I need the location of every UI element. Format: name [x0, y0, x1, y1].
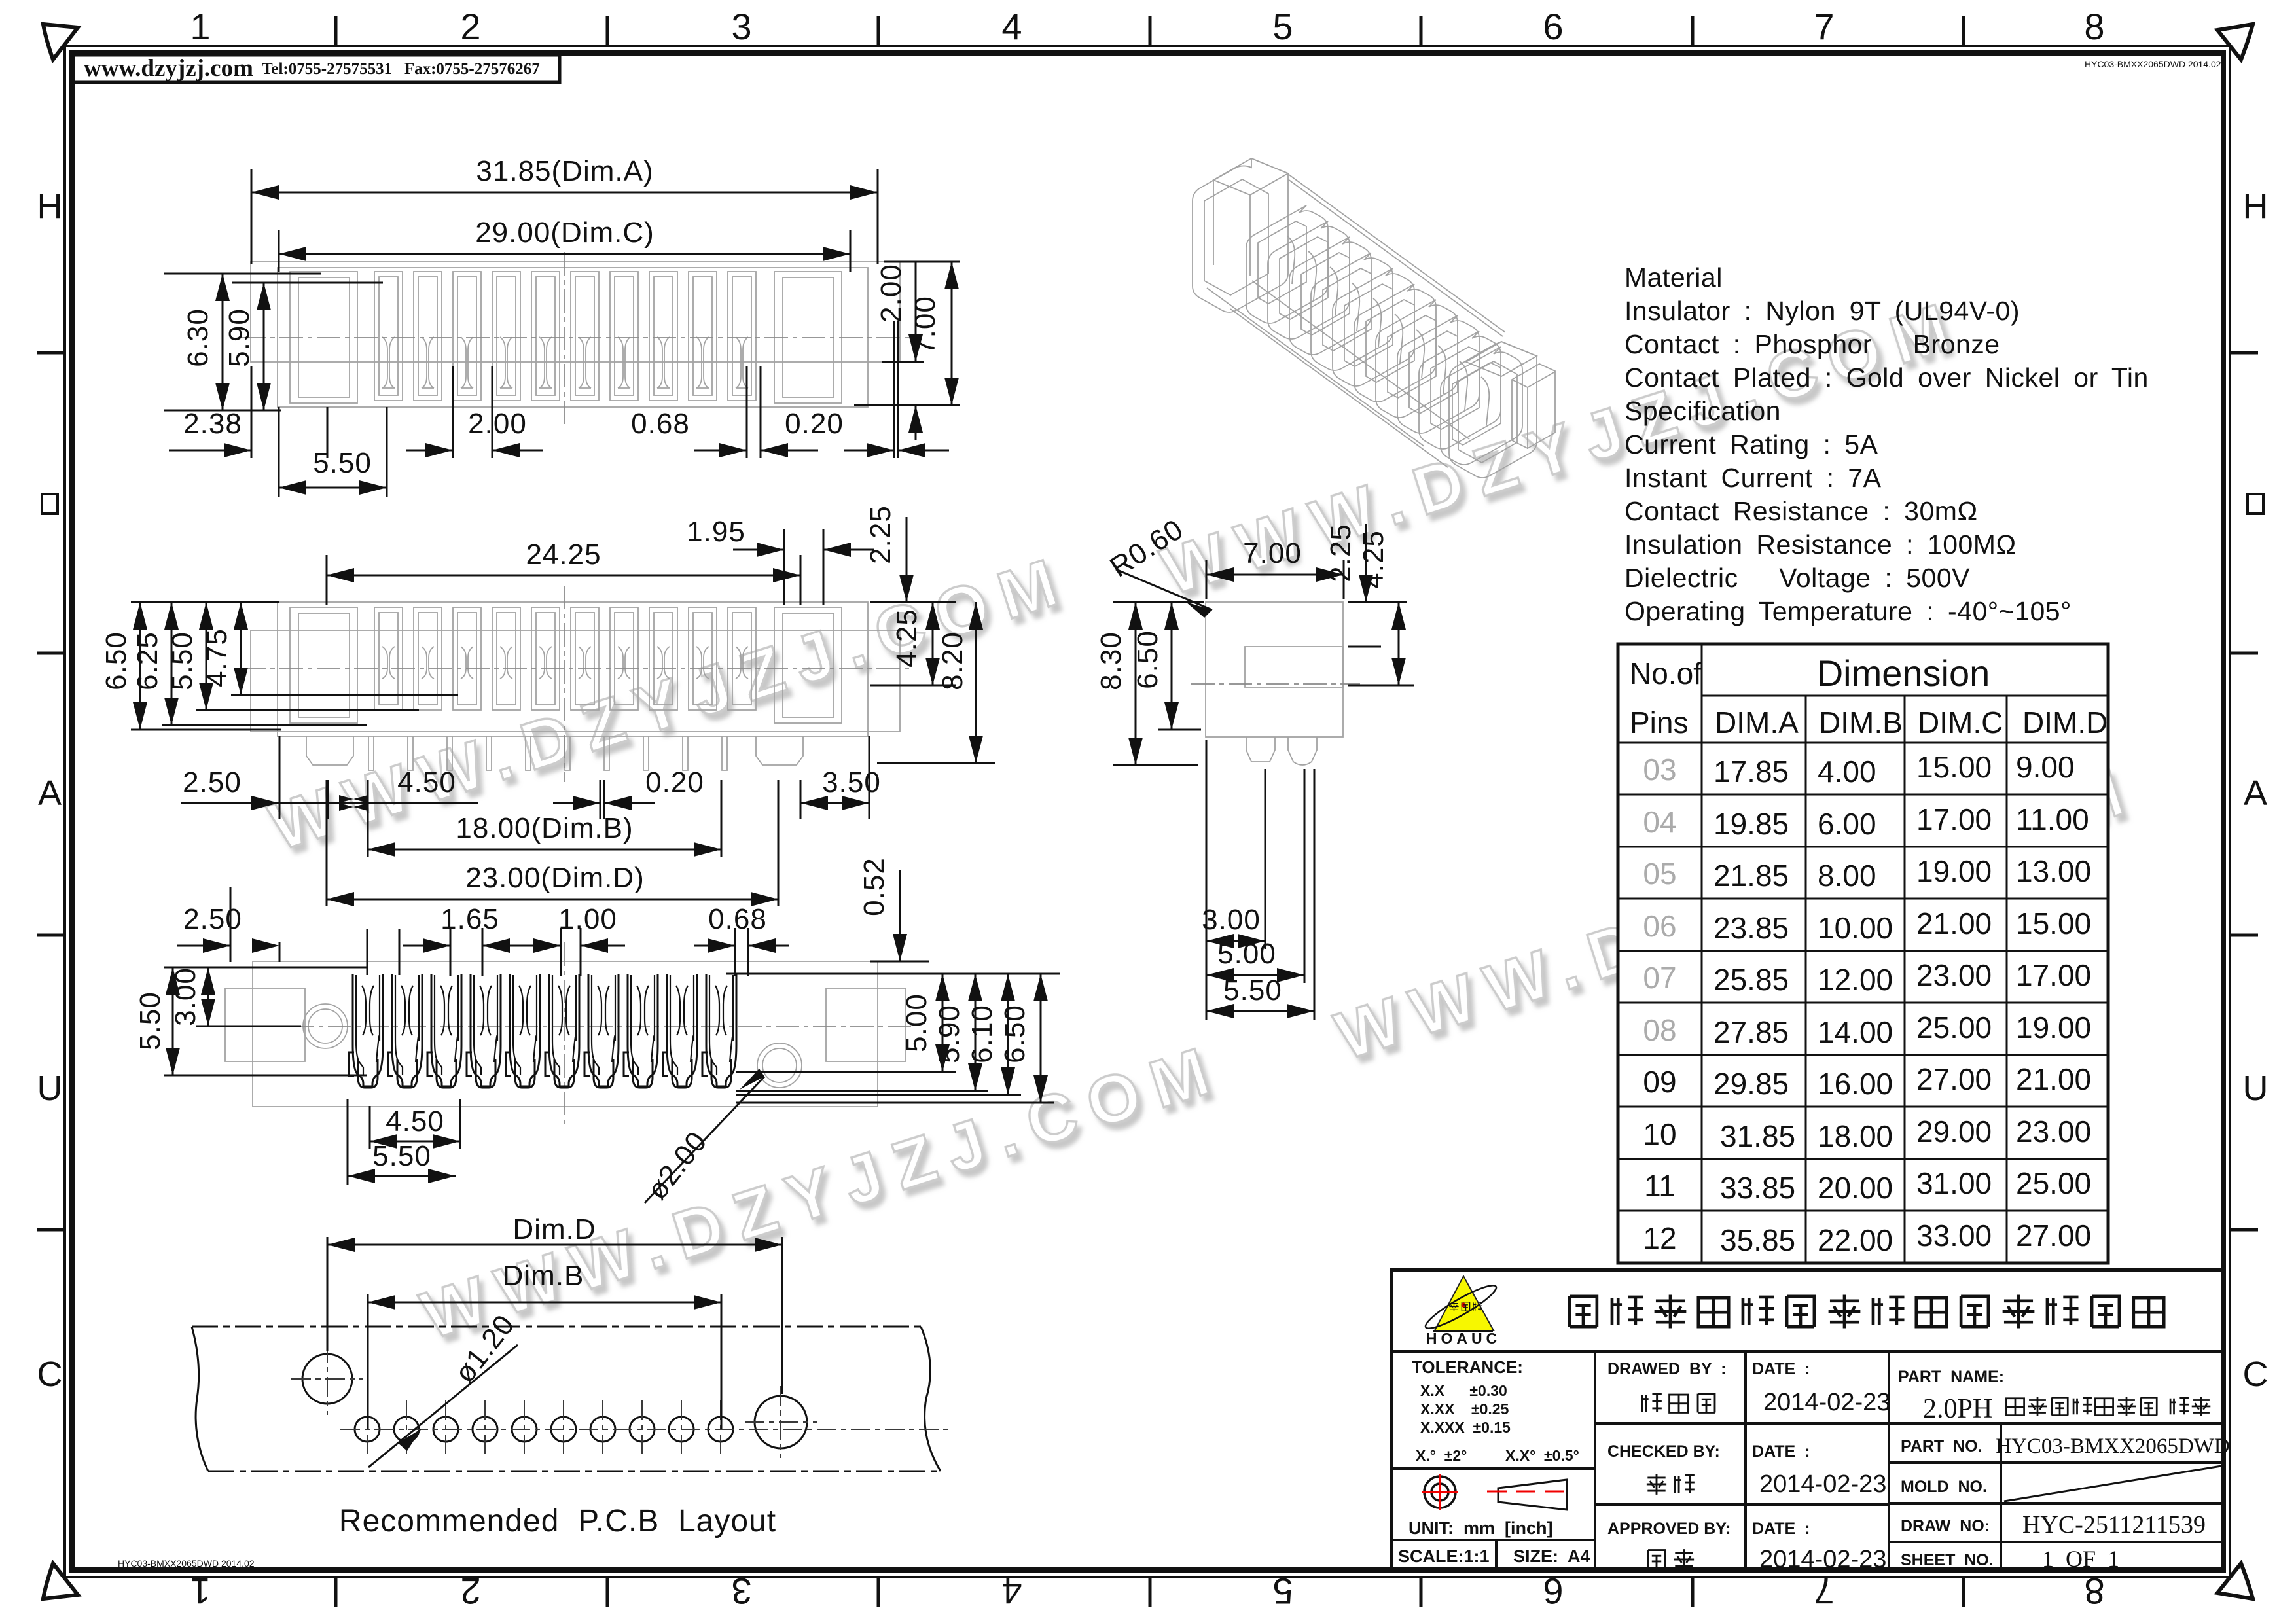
big holes [302, 1354, 352, 1404]
svg-text:19.85: 19.85 [1713, 807, 1789, 841]
svg-text:2: 2 [460, 1571, 480, 1612]
dia 2.00 leader [645, 1077, 764, 1203]
legs [306, 736, 803, 770]
svg-text:HYC03-BMXX2065DWD 2014.02: HYC03-BMXX2065DWD 2014.02 [2085, 59, 2221, 69]
24.25 [326, 555, 328, 605]
svg-text:H: H [2243, 187, 2269, 226]
svg-text:31.85(Dim.A): 31.85(Dim.A) [476, 155, 653, 187]
svg-text:6.00: 6.00 [1818, 807, 1876, 841]
svg-text:08: 08 [1643, 1013, 1676, 1047]
fins [1246, 205, 1328, 323]
svg-text:2014-02-23: 2014-02-23 [1759, 1546, 1886, 1573]
svg-text:07: 07 [1643, 961, 1676, 995]
black contacts [349, 974, 383, 1088]
svg-text:5.50: 5.50 [134, 991, 166, 1050]
8.20 [975, 602, 977, 763]
svg-text:04: 04 [1643, 805, 1676, 839]
svg-text:29.00: 29.00 [1916, 1115, 1992, 1149]
svg-text:1: 1 [190, 1571, 210, 1612]
svg-text:DATE :: DATE : [1752, 1360, 1810, 1378]
svg-text:PART NO.: PART NO. [1901, 1437, 1982, 1455]
left 6.30 / 5.90 [164, 273, 321, 275]
4.25 [932, 602, 934, 685]
2.25 right [906, 517, 908, 602]
spine lines [1207, 174, 1505, 467]
svg-text:1.00: 1.00 [558, 903, 617, 935]
svg-text:33.00: 33.00 [1916, 1219, 1992, 1253]
svg-text:5.90: 5.90 [933, 1005, 965, 1063]
svg-text:03: 03 [1643, 753, 1676, 787]
svg-text:0.68: 0.68 [708, 903, 767, 935]
svg-text:4.00: 4.00 [1818, 755, 1876, 789]
svg-text:Contact Resistance : 30mΩ: Contact Resistance : 30mΩ [1624, 496, 1978, 526]
left end cap [1193, 158, 1288, 312]
svg-text:6.50: 6.50 [100, 632, 132, 690]
svg-text:Instant Current : 7A: Instant Current : 7A [1624, 463, 1882, 493]
svg-text:22.00: 22.00 [1818, 1223, 1893, 1257]
svg-text:4: 4 [1001, 6, 1022, 47]
svg-text:1: 1 [190, 6, 210, 47]
svg-text:HYC03-BMXX2065DWD: HYC03-BMXX2065DWD [1996, 1435, 2230, 1458]
svg-text:A: A [2244, 774, 2267, 813]
svg-text:APPROVED BY:: APPROVED BY: [1607, 1520, 1731, 1538]
svg-text:31.85: 31.85 [1720, 1119, 1795, 1153]
gray body [251, 630, 900, 732]
svg-text:9.00: 9.00 [2016, 750, 2075, 784]
svg-text:17.85: 17.85 [1713, 755, 1789, 789]
svg-text:23.00: 23.00 [2016, 1115, 2091, 1149]
svg-text:UNIT: mm [inch]: UNIT: mm [inch] [1408, 1518, 1553, 1538]
R0.60 leader [1116, 569, 1212, 610]
svg-text:23.85: 23.85 [1713, 911, 1789, 945]
svg-text:No.of: No.of [1630, 656, 1702, 690]
svg-text:11.00: 11.00 [2016, 802, 2089, 836]
svg-text:5.50: 5.50 [372, 1140, 431, 1172]
svg-text:5.50: 5.50 [1223, 974, 1282, 1007]
right 2.00 / 7.00 [884, 261, 960, 263]
svg-text:2.25: 2.25 [865, 505, 897, 564]
svg-text:X.XX ±0.25: X.XX ±0.25 [1420, 1400, 1509, 1418]
svg-text:DIM.A: DIM.A [1715, 705, 1799, 740]
svg-text:0.68: 0.68 [631, 408, 690, 440]
svg-text:3.00: 3.00 [1202, 904, 1261, 936]
svg-text:Dimension: Dimension [1817, 652, 1990, 694]
svg-text:TOLERANCE:: TOLERANCE: [1412, 1357, 1523, 1377]
svg-text:Contact Plated : Gold over Nic: Contact Plated : Gold over Nickel or Tin [1624, 363, 2149, 393]
svg-text:X.XXX ±0.15: X.XXX ±0.15 [1420, 1419, 1511, 1436]
svg-text:6: 6 [1543, 6, 1563, 47]
svg-text:0.20: 0.20 [785, 408, 844, 440]
dims [131, 517, 995, 906]
svg-text:14.00: 14.00 [1818, 1015, 1893, 1049]
svg-text:11: 11 [1644, 1169, 1676, 1203]
svg-text:7.00: 7.00 [909, 296, 941, 355]
top row 2.50 1.65 1.00 0.68 [230, 887, 232, 962]
svg-text:19.00: 19.00 [2016, 1010, 2091, 1044]
0.20 [844, 450, 894, 452]
svg-text:5.00: 5.00 [1217, 938, 1276, 970]
svg-text:2.00: 2.00 [468, 408, 527, 440]
left verticals 6.50 6.25 5.50 4.75 [131, 601, 279, 603]
dims [164, 870, 1060, 1203]
svg-text:Insulator : Nylon 9T (UL94V-0): Insulator : Nylon 9T (UL94V-0) [1624, 296, 2020, 326]
svg-text:X.X° ±0.5°: X.X° ±0.5° [1505, 1447, 1579, 1464]
svg-text:4.25: 4.25 [891, 609, 923, 668]
svg-text:17.00: 17.00 [2016, 958, 2091, 992]
svg-text:Dim.D: Dim.D [512, 1213, 596, 1245]
svg-text:35.85: 35.85 [1720, 1223, 1795, 1257]
band outline [192, 1327, 941, 1471]
svg-text:25.85: 25.85 [1713, 963, 1789, 997]
svg-text:8: 8 [2084, 6, 2104, 47]
bottom dim row: 2.50 4.50 0.20 3.50 [279, 736, 281, 819]
svg-text:DRAWED BY :: DRAWED BY : [1607, 1360, 1727, 1378]
svg-text:6.50: 6.50 [999, 1005, 1031, 1063]
zone letters sides [37, 187, 2269, 1394]
svg-text:Operating Temperature : -40°~1: Operating Temperature : -40°~105° [1624, 596, 2072, 626]
svg-text:18.00(Dim.B): 18.00(Dim.B) [456, 812, 633, 844]
svg-text:10.00: 10.00 [1818, 911, 1893, 945]
svg-text:Material: Material [1624, 262, 1723, 293]
svg-text:3.00: 3.00 [170, 967, 202, 1026]
svg-text:HYC-2511211539: HYC-2511211539 [2022, 1511, 2206, 1539]
left 5.50 3.00 [164, 967, 367, 969]
right end cap [1449, 342, 1537, 478]
gray body background [253, 961, 878, 1107]
svg-text:DIM.C: DIM.C [1918, 705, 2003, 740]
18.00 Dim.B [721, 780, 723, 857]
svg-text:2014-02-23: 2014-02-23 [1763, 1389, 1890, 1416]
23.00 Dim.D [326, 780, 328, 906]
svg-text:X.° ±2°: X.° ±2° [1416, 1447, 1467, 1464]
svg-text:7: 7 [1814, 1571, 1834, 1612]
svg-text:SCALE:1:1: SCALE:1:1 [1398, 1546, 1490, 1566]
svg-text:SHEET NO.: SHEET NO. [1901, 1551, 1994, 1569]
svg-text:27.00: 27.00 [2016, 1219, 2091, 1253]
svg-text:8.30: 8.30 [1095, 632, 1127, 690]
svg-text:Dim.B: Dim.B [503, 1260, 584, 1292]
svg-text:0.52: 0.52 [858, 857, 890, 916]
svg-text:5: 5 [1272, 6, 1293, 47]
svg-text:2.25: 2.25 [1325, 524, 1357, 582]
svg-text:27.85: 27.85 [1713, 1015, 1789, 1049]
svg-text:2.50: 2.50 [183, 766, 242, 798]
svg-text:29.00(Dim.C): 29.00(Dim.C) [475, 217, 655, 249]
svg-text:09: 09 [1643, 1065, 1676, 1099]
svg-text:H: H [37, 187, 63, 226]
svg-text:MOLD NO.: MOLD NO. [1901, 1478, 1987, 1496]
svg-text:PART NAME:: PART NAME: [1898, 1368, 2004, 1386]
svg-text:X.X ±0.30: X.X ±0.30 [1420, 1382, 1507, 1399]
svg-text:10: 10 [1643, 1117, 1676, 1151]
svg-text:17.00: 17.00 [1916, 802, 1992, 836]
svg-text:4: 4 [1001, 1571, 1022, 1612]
bottom 3.00 5.00 5.50 [1206, 740, 1208, 1020]
right 5.00 5.90 6.10 6.50 [726, 973, 1060, 975]
svg-text:4.75: 4.75 [201, 628, 233, 687]
svg-text:5.50: 5.50 [166, 632, 198, 690]
svg-text:5.00: 5.00 [901, 993, 933, 1052]
1.95 [783, 529, 785, 605]
gray body [251, 262, 900, 362]
svg-text:4.50: 4.50 [397, 766, 456, 798]
svg-text:5.50: 5.50 [313, 447, 372, 479]
svg-text:C: C [37, 1355, 63, 1394]
svg-text:4.25: 4.25 [1357, 530, 1390, 589]
svg-text:12: 12 [1643, 1221, 1676, 1255]
2.25 right [1365, 524, 1367, 602]
svg-text:Pins: Pins [1630, 705, 1688, 740]
svg-text:Dielectric Voltage : 500V: Dielectric Voltage : 500V [1624, 563, 1970, 593]
svg-text:6: 6 [1543, 1571, 1563, 1612]
2.00 pitch [406, 450, 453, 452]
svg-text:3: 3 [731, 1571, 751, 1612]
svg-text:13.00: 13.00 [2016, 854, 2091, 888]
svg-text:24.25: 24.25 [526, 539, 601, 571]
4.25 [1398, 602, 1400, 685]
svg-text:2.38: 2.38 [183, 408, 242, 440]
svg-text:U: U [37, 1069, 63, 1108]
dims [327, 1237, 782, 1467]
names fake CJK [1642, 1394, 1662, 1412]
svg-text:CHECKED BY:: CHECKED BY: [1607, 1442, 1720, 1461]
svg-text:Current Rating : 5A: Current Rating : 5A [1624, 429, 1878, 459]
svg-text:Specification: Specification [1624, 396, 1781, 426]
8.30 6.50 [1113, 601, 1204, 603]
svg-text:DATE :: DATE : [1752, 1442, 1810, 1461]
svg-text:8: 8 [2084, 1571, 2104, 1612]
svg-text:5: 5 [1272, 1571, 1293, 1612]
svg-text:HOAUC: HOAUC [1426, 1330, 1501, 1347]
0.68 [694, 450, 747, 452]
svg-text:25.00: 25.00 [1916, 1010, 1992, 1044]
svg-text:8.00: 8.00 [1818, 859, 1876, 893]
svg-text:18.00: 18.00 [1818, 1119, 1893, 1153]
info box [73, 55, 560, 82]
svg-text:31.00: 31.00 [1916, 1166, 1992, 1200]
0.52 [899, 870, 901, 961]
svg-text:06: 06 [1643, 909, 1676, 943]
svg-text:2.50: 2.50 [183, 903, 242, 935]
middle columns [1607, 1360, 1810, 1538]
svg-text:6.50: 6.50 [1132, 630, 1164, 689]
svg-text:3.50: 3.50 [822, 766, 881, 798]
svg-text:21.00: 21.00 [1916, 906, 1992, 940]
corner trim marks [43, 24, 78, 60]
zone numbers bottom (rotated 180) [190, 1571, 2104, 1612]
svg-text:1.65: 1.65 [440, 903, 499, 935]
svg-text:7: 7 [1814, 6, 1834, 47]
svg-text:27.00: 27.00 [1916, 1062, 1992, 1096]
svg-text:Recommended P.C.B Layout: Recommended P.C.B Layout [339, 1504, 776, 1539]
logo [1435, 1276, 1494, 1330]
svg-text:2014-02-23: 2014-02-23 [1759, 1471, 1886, 1498]
svg-text:1.95: 1.95 [687, 516, 745, 548]
svg-text:C: C [2243, 1355, 2269, 1394]
svg-text:12.00: 12.00 [1818, 963, 1893, 997]
svg-text:23.00(Dim.D): 23.00(Dim.D) [465, 862, 645, 894]
svg-text:19.00: 19.00 [1916, 854, 1992, 888]
svg-text:6.30: 6.30 [182, 308, 214, 367]
svg-text:3: 3 [731, 6, 751, 47]
svg-text:6.25: 6.25 [132, 632, 164, 690]
svg-text:1 OF 1: 1 OF 1 [2042, 1546, 2119, 1572]
svg-text:33.85: 33.85 [1720, 1171, 1795, 1205]
svg-text:15.00: 15.00 [1916, 750, 1992, 784]
bottom 4.50 5.50 [347, 1099, 349, 1185]
svg-text:29.85: 29.85 [1713, 1067, 1789, 1101]
bottom row extensions [278, 407, 280, 497]
svg-text:4.50: 4.50 [386, 1105, 444, 1137]
post [1512, 364, 1555, 449]
5.50 [279, 487, 387, 489]
svg-text:DATE :: DATE : [1752, 1520, 1810, 1538]
company name (fake CJK) [1570, 1294, 2164, 1328]
svg-text:05: 05 [1643, 857, 1676, 891]
svg-text:U: U [2243, 1069, 2269, 1108]
svg-text:SIZE: A4: SIZE: A4 [1513, 1546, 1590, 1566]
svg-text:A: A [38, 774, 62, 813]
svg-text:7.00: 7.00 [1243, 537, 1302, 569]
svg-text:DIM.B: DIM.B [1819, 705, 1903, 740]
svg-text:6.10: 6.10 [966, 1005, 998, 1063]
svg-text:20.00: 20.00 [1818, 1171, 1893, 1205]
svg-text:21.85: 21.85 [1713, 859, 1789, 893]
2.38 [251, 366, 253, 458]
svg-text:21.00: 21.00 [2016, 1062, 2091, 1096]
svg-text:15.00: 15.00 [2016, 906, 2091, 940]
svg-text:2: 2 [460, 6, 480, 47]
dims [164, 169, 960, 497]
zone numbers top [190, 6, 2104, 47]
svg-text:2.00: 2.00 [875, 264, 907, 323]
svg-text:HYC03-BMXX2065DWD 2014.02: HYC03-BMXX2065DWD 2014.02 [118, 1558, 255, 1569]
svg-text:5.90: 5.90 [223, 308, 255, 367]
svg-text:16.00: 16.00 [1818, 1067, 1893, 1101]
7.00 [1206, 560, 1208, 599]
svg-text:www.dzyjzj.com: www.dzyjzj.com [84, 55, 253, 82]
svg-text:2.0PH: 2.0PH [1923, 1394, 1992, 1424]
svg-text:Insulation Resistance : 100MΩ: Insulation Resistance : 100MΩ [1624, 529, 2017, 560]
right column [1898, 1368, 2004, 1569]
svg-text:0.20: 0.20 [645, 766, 704, 798]
svg-text:23.00: 23.00 [1916, 958, 1992, 992]
svg-text:25.00: 25.00 [2016, 1166, 2091, 1200]
svg-text:Contact : Phosphor Bronze: Contact : Phosphor Bronze [1624, 329, 2000, 359]
svg-text:8.20: 8.20 [937, 632, 969, 690]
svg-text:DRAW NO:: DRAW NO: [1901, 1517, 1990, 1535]
svg-text:DIM.D: DIM.D [2022, 705, 2108, 740]
small holes [355, 1417, 733, 1442]
svg-text:Tel:0755-27575531 Fax:0755-2: Tel:0755-27575531 Fax:0755-27576267 [262, 60, 540, 78]
